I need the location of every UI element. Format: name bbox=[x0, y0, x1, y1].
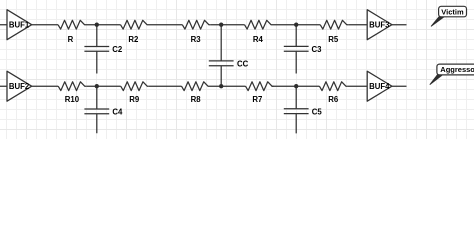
svg-text:Victim: Victim bbox=[441, 7, 464, 16]
svg-text:BUF2: BUF2 bbox=[9, 82, 30, 91]
svg-text:R7: R7 bbox=[252, 95, 262, 104]
svg-text:R2: R2 bbox=[128, 35, 139, 44]
svg-text:R4: R4 bbox=[253, 35, 264, 44]
svg-text:R5: R5 bbox=[328, 35, 339, 44]
svg-text:R3: R3 bbox=[191, 35, 202, 44]
svg-text:CC: CC bbox=[237, 60, 249, 69]
svg-text:R8: R8 bbox=[191, 95, 202, 104]
svg-text:C2: C2 bbox=[112, 45, 123, 54]
svg-text:C4: C4 bbox=[112, 108, 123, 117]
svg-text:C5: C5 bbox=[312, 108, 323, 117]
svg-text:R: R bbox=[68, 35, 74, 44]
svg-text:Aggressor: Aggressor bbox=[440, 65, 474, 74]
svg-text:BUF3: BUF3 bbox=[369, 21, 390, 30]
svg-text:BUF4: BUF4 bbox=[369, 82, 390, 91]
svg-text:R10: R10 bbox=[65, 95, 80, 104]
svg-text:R9: R9 bbox=[129, 95, 140, 104]
svg-text:C3: C3 bbox=[312, 45, 323, 54]
svg-text:R6: R6 bbox=[328, 95, 339, 104]
svg-text:BUF1: BUF1 bbox=[9, 21, 30, 30]
